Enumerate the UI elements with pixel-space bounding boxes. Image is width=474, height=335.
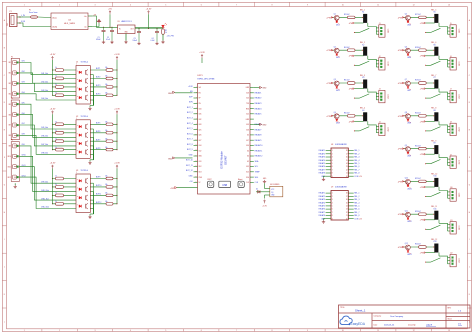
svg-text:9: 9 xyxy=(332,218,333,220)
svg-text:+PW: +PW xyxy=(420,220,424,222)
J8 pin stub 3 xyxy=(448,132,451,134)
resistor R23 relay xyxy=(419,213,427,216)
LED12 xyxy=(407,251,409,253)
svg-text:5V: 5V xyxy=(199,182,201,184)
ground R1 xyxy=(162,41,164,42)
svg-text:8: 8 xyxy=(272,5,273,7)
J1 pin stub 3 xyxy=(376,33,379,35)
wire output BUT12 xyxy=(90,203,117,205)
wire emitter U3 ch1 xyxy=(90,182,93,184)
LED3 xyxy=(336,87,338,89)
wire input CH12 xyxy=(19,177,76,208)
relay K8 common lead xyxy=(426,130,431,132)
relay K3 switch arm xyxy=(359,94,369,98)
relay K2 common lead xyxy=(354,64,359,66)
svg-text:LED6: LED6 xyxy=(407,57,411,59)
svg-text:SD0: SD0 xyxy=(255,177,259,179)
svg-text:CON3: CON3 xyxy=(386,127,388,131)
wire L_IN xyxy=(20,16,30,18)
svg-text:G19: G19 xyxy=(246,124,249,126)
svg-text:J3: J3 xyxy=(379,89,381,91)
svg-text:1k: 1k xyxy=(55,201,57,203)
resistor R1 xyxy=(162,29,165,35)
wire emitter U1 ch1 xyxy=(90,74,93,76)
svg-text:+PW: +PW xyxy=(397,214,402,216)
relay K1 coil pin stub xyxy=(367,23,369,27)
svg-text:RELAY1: RELAY1 xyxy=(319,149,325,152)
J8 pin 2 xyxy=(452,129,454,131)
resistor R22 relay xyxy=(419,180,427,183)
svg-text:REL_8: REL_8 xyxy=(354,173,359,175)
svg-text:CH1: CH1 xyxy=(22,61,25,63)
J11 pin stub 2 xyxy=(448,227,451,229)
capacitor C4 xyxy=(156,28,157,29)
resistor R11 anode xyxy=(52,195,53,196)
svg-text:+PW: +PW xyxy=(397,50,402,52)
opto LED U3 ch3 xyxy=(79,196,81,199)
svg-text:BUT3: BUT3 xyxy=(96,85,100,87)
svg-text:CON3: CON3 xyxy=(458,94,460,98)
svg-text:BUT_8: BUT_8 xyxy=(187,144,193,146)
svg-text:K1: K1 xyxy=(362,12,364,14)
svg-text:G34: G34 xyxy=(199,108,202,110)
svg-text:CON3: CON3 xyxy=(386,62,388,66)
svg-text:G12: G12 xyxy=(199,150,202,152)
ground C3 xyxy=(138,42,140,43)
J1 pin 3 xyxy=(380,33,382,35)
svg-text:SCL: SCL xyxy=(255,166,259,168)
svg-text:LED2: LED2 xyxy=(336,57,340,59)
svg-text:+PW: +PW xyxy=(420,187,424,189)
svg-text:CON3: CON3 xyxy=(458,29,460,33)
diode D2 xyxy=(258,190,261,193)
wire right rail xyxy=(116,169,118,204)
wire K4 to contacts xyxy=(368,125,377,133)
EXP1 right pin 16 G15 xyxy=(250,166,254,168)
power flag +3.3V right rail U1 xyxy=(116,58,118,60)
U8 pin 5 left xyxy=(326,162,331,164)
svg-text:G33: G33 xyxy=(199,124,202,126)
power flag +3.3V left rail U1 xyxy=(52,58,54,60)
svg-text:EasyEDA: EasyEDA xyxy=(351,322,366,326)
svg-text:TEMP: TEMP xyxy=(255,172,261,174)
svg-text:G27: G27 xyxy=(199,140,202,142)
wire output BUT3 xyxy=(90,86,117,88)
opto LED U1 ch1 xyxy=(79,71,81,74)
svg-text:G15: G15 xyxy=(246,166,249,168)
svg-text:+PW: +PW xyxy=(397,17,402,19)
svg-text:10k: 10k xyxy=(105,176,108,178)
J9 pin 2 xyxy=(452,161,454,163)
ground C2 xyxy=(111,41,113,42)
svg-text:CH2_But: CH2_But xyxy=(41,80,48,83)
AC-DC module U4 xyxy=(51,13,88,30)
svg-text:5: 5 xyxy=(165,330,166,332)
svg-text:REL_4: REL_4 xyxy=(354,160,359,162)
svg-text:RELAY7: RELAY7 xyxy=(319,211,325,214)
resistor R17 relay xyxy=(419,16,427,19)
svg-text:5: 5 xyxy=(165,5,166,7)
svg-text:RELAY5: RELAY5 xyxy=(255,113,262,116)
ground C1 xyxy=(103,41,105,42)
transistor Q3 xyxy=(334,81,339,86)
J5 pin 2 xyxy=(452,30,454,32)
svg-text:REV:: REV: xyxy=(448,308,452,310)
svg-text:10k: 10k xyxy=(105,130,108,132)
svg-text:Boot: Boot xyxy=(238,178,243,181)
svg-text:+3.3V: +3.3V xyxy=(50,54,56,56)
optocoupler U3 xyxy=(76,174,90,213)
connector J2 xyxy=(379,58,385,70)
resistor R18 relay xyxy=(419,49,427,52)
J1 pin 1 xyxy=(380,27,382,29)
svg-text:Q12: Q12 xyxy=(405,243,408,245)
wire K9 to contacts xyxy=(439,158,448,166)
EXP1 right pin 15 G2 xyxy=(250,160,254,162)
EXP1 right pin 12 G16 xyxy=(250,145,254,147)
svg-text:Q10: Q10 xyxy=(405,178,408,180)
svg-text:J: J xyxy=(4,267,5,269)
svg-text:SD3: SD3 xyxy=(199,172,202,174)
connector J8 xyxy=(450,123,456,135)
resistor R20 relay xyxy=(419,115,427,118)
wire +PW to coil K4 xyxy=(333,115,363,117)
EXP1 right pin 11 G17 xyxy=(250,139,254,141)
opto LED U2 ch3 xyxy=(79,142,81,145)
svg-text:Q1: Q1 xyxy=(334,14,336,16)
J6 pin stub 2 xyxy=(448,63,451,65)
svg-text:G26: G26 xyxy=(199,135,202,137)
opto transistor U3 ch1 xyxy=(85,179,87,184)
svg-text:GND: GND xyxy=(168,158,173,160)
optocoupler U1 xyxy=(76,66,90,105)
transistor Q5 xyxy=(406,15,411,20)
svg-text:G2: G2 xyxy=(247,161,249,163)
svg-text:R17 4k7: R17 4k7 xyxy=(415,14,421,16)
svg-text:BUT1: BUT1 xyxy=(96,68,100,70)
opto transistor U2 ch1 xyxy=(85,124,87,129)
wire input CH2 xyxy=(19,73,76,83)
power flag +3.3V above EXP1 xyxy=(201,56,203,58)
svg-text:CH6: CH6 xyxy=(22,113,25,115)
resistor R21 relay xyxy=(419,147,427,150)
J12 pin stub 3 xyxy=(448,263,451,265)
relay K12 coil pin stub xyxy=(438,253,440,257)
svg-text:LED10: LED10 xyxy=(407,188,412,190)
wire -Vo to ground xyxy=(92,23,99,27)
EXP1 right pin 5 RXD xyxy=(250,108,254,110)
svg-text:CON3: CON3 xyxy=(458,258,460,262)
svg-text:K12: K12 xyxy=(434,241,437,243)
J4 pin 3 xyxy=(380,132,382,134)
svg-text:LED8: LED8 xyxy=(407,123,411,125)
power flag +3.3V right rail U2 xyxy=(116,112,118,114)
svg-text:EXP1: EXP1 xyxy=(198,75,204,77)
svg-text:+Vo: +Vo xyxy=(84,16,87,18)
svg-text:10k: 10k xyxy=(105,121,108,123)
svg-text:GND: GND xyxy=(168,93,173,95)
svg-text:BUT_2: BUT_2 xyxy=(187,112,193,114)
EXP1 right pin 10 G5 xyxy=(250,134,254,136)
optocoupler U2 xyxy=(76,120,90,159)
resistor R1 anode xyxy=(52,69,53,70)
resistor pullup U2 ch4 xyxy=(106,148,113,151)
U9 pin 4 left xyxy=(326,202,331,204)
EXP1 right pin 18 SD0 xyxy=(250,176,254,178)
svg-text:R19 4k7: R19 4k7 xyxy=(415,80,421,82)
svg-text:P4: P4 xyxy=(11,140,13,142)
svg-text:17: 17 xyxy=(346,153,348,155)
wire U5 out rail xyxy=(135,28,163,30)
svg-text:OUT: OUT xyxy=(130,29,133,31)
U5 ground pin xyxy=(125,34,127,41)
ground U9 xyxy=(324,219,326,221)
driver IC U9 ULN2803 xyxy=(331,191,348,221)
svg-text:BUT7: BUT7 xyxy=(96,139,100,141)
svg-text:REL_5: REL_5 xyxy=(354,163,359,165)
svg-text:R23 4k7: R23 4k7 xyxy=(415,211,421,213)
svg-text:7: 7 xyxy=(236,5,237,7)
relay K2 switch arm xyxy=(359,61,369,65)
J5 pin 1 xyxy=(452,27,454,29)
connector J7 xyxy=(450,90,456,102)
J4 pin stub 2 xyxy=(376,129,379,131)
frame row ticks left/right xyxy=(2,33,6,35)
relay K6 switch arm xyxy=(431,61,441,65)
opto transistor U1 ch3 xyxy=(85,87,87,92)
EXP1 left pin 5 G34 xyxy=(194,108,198,110)
wire +3.3V to rail xyxy=(148,14,150,28)
svg-text:VP: VP xyxy=(199,98,201,100)
svg-text:13: 13 xyxy=(346,209,348,211)
svg-text:J6: J6 xyxy=(450,56,452,58)
resistor R15 relay xyxy=(347,82,355,85)
svg-text:2: 2 xyxy=(59,330,60,332)
svg-text:BUT_7: BUT_7 xyxy=(187,139,193,141)
EXP1 left pin 18 CMD xyxy=(194,176,198,178)
wire +PW to coil K5 xyxy=(404,16,434,18)
svg-text:1k: 1k xyxy=(55,147,57,149)
svg-text:CN2: CN2 xyxy=(7,23,9,26)
J11 pin 2 xyxy=(452,227,454,229)
opto transistor U1 ch2 xyxy=(85,79,87,84)
resistor R16 relay xyxy=(347,115,355,118)
transistor Q6 xyxy=(406,48,411,53)
J2 pin 2 xyxy=(380,63,382,65)
svg-text:J4: J4 xyxy=(379,122,381,124)
EXP1 left pin 12 G14 xyxy=(194,145,198,147)
svg-text:IN2: IN2 xyxy=(8,73,11,75)
relay K7 coil pin stub xyxy=(438,89,440,93)
EXP1 left pin 2 EN xyxy=(194,92,198,94)
svg-text:+5V: +5V xyxy=(108,8,112,10)
EXP1 left pin 9 G25 xyxy=(194,129,198,131)
relay K11 coil pin stub xyxy=(438,220,440,224)
svg-text:+PW: +PW xyxy=(348,23,352,25)
EXP1 left pin 7 G32 xyxy=(194,118,198,120)
resistor R3 anode xyxy=(52,86,53,87)
svg-text:+PW: +PW xyxy=(326,17,331,19)
svg-text:1k: 1k xyxy=(55,193,57,195)
J8 pin stub 1 xyxy=(448,125,451,127)
svg-text:6: 6 xyxy=(201,330,202,332)
svg-text:D2: D2 xyxy=(256,188,258,190)
svg-text:LED5: LED5 xyxy=(407,24,411,26)
resistor pullup U2 ch2 xyxy=(106,131,113,134)
svg-text:C3: C3 xyxy=(134,38,136,40)
relay K5 coil pin stub xyxy=(438,23,440,27)
U8 pin 9 left xyxy=(326,175,331,177)
connector J1 xyxy=(379,25,385,37)
svg-text:J8: J8 xyxy=(450,122,452,124)
svg-text:GND: GND xyxy=(262,125,267,127)
svg-text:RELAY3: RELAY3 xyxy=(319,156,325,159)
EXP1 right pin 3 G22 xyxy=(250,97,254,99)
svg-text:HLK_5M05: HLK_5M05 xyxy=(64,23,76,25)
J1 pin stub 1 xyxy=(376,27,379,29)
U8 pin 17 right xyxy=(348,153,353,155)
LED2 xyxy=(336,54,338,56)
EXP1 right pin 17 SD1 xyxy=(250,171,254,173)
svg-text:1k: 1k xyxy=(55,67,57,69)
svg-text:BUT_9: BUT_9 xyxy=(187,149,193,151)
J3 pin stub 2 xyxy=(376,96,379,98)
transistor Q12 xyxy=(406,245,411,250)
svg-text:Q4: Q4 xyxy=(334,112,336,114)
relay K10 coil xyxy=(434,178,438,187)
svg-text:RELAY3: RELAY3 xyxy=(319,198,325,201)
svg-text:+PW: +PW xyxy=(397,247,402,249)
P2 pin 2 xyxy=(12,71,16,75)
svg-text:13: 13 xyxy=(448,330,450,332)
connector J11 xyxy=(450,222,456,234)
capacitor C3 xyxy=(138,28,139,29)
connector J10 xyxy=(450,189,456,201)
svg-text:U3: U3 xyxy=(76,170,78,172)
relay K5 common lead xyxy=(426,32,431,34)
LED9 xyxy=(407,152,409,154)
relay K1 common lead xyxy=(354,32,359,34)
svg-text:G22: G22 xyxy=(246,98,249,100)
svg-text:J12: J12 xyxy=(450,253,453,255)
EXP1 right pin 2 G23 xyxy=(250,92,254,94)
svg-text:+PW: +PW xyxy=(397,181,402,183)
svg-text:1k: 1k xyxy=(55,176,57,178)
J8 pin 1 xyxy=(452,125,454,127)
P4 pin 3 xyxy=(12,165,16,169)
U8 pin 1 left xyxy=(326,150,331,152)
svg-text:SD1: SD1 xyxy=(246,172,249,174)
ground U3 xyxy=(90,213,94,215)
LED4 xyxy=(336,119,338,121)
svg-text:G4: G4 xyxy=(247,150,249,152)
svg-text:+PW: +PW xyxy=(397,149,402,151)
LED11 xyxy=(407,218,409,220)
svg-text:10k: 10k xyxy=(105,84,108,86)
resistor pullup U1 ch4 xyxy=(106,94,113,97)
svg-text:BUT_6: BUT_6 xyxy=(187,133,193,135)
relay K5 coil xyxy=(434,14,438,23)
svg-text:LED7: LED7 xyxy=(407,90,411,92)
wire input CH11 xyxy=(19,167,76,200)
svg-text:+PW: +PW xyxy=(326,116,331,118)
P4 pin 2 xyxy=(12,154,16,158)
J2 pin stub 3 xyxy=(376,66,379,68)
connector P4 xyxy=(11,142,19,182)
wire emitter U2 ch3 xyxy=(90,145,93,147)
J1 pin 2 xyxy=(380,30,382,32)
svg-text:U9: U9 xyxy=(331,186,333,188)
J7 pin stub 2 xyxy=(448,96,451,98)
wire input CH9 xyxy=(19,146,76,183)
J10 pin stub 1 xyxy=(448,191,451,193)
wire input CH4 xyxy=(19,94,76,100)
svg-text:VN: VN xyxy=(199,103,201,105)
resistor R9 anode xyxy=(52,178,53,179)
J6 pin stub 3 xyxy=(448,66,451,68)
LED7 xyxy=(407,87,409,89)
svg-text:G32: G32 xyxy=(199,119,202,121)
svg-text:10k: 10k xyxy=(105,184,108,186)
svg-text:J7: J7 xyxy=(450,89,452,91)
svg-text:9: 9 xyxy=(307,330,308,332)
svg-text:REL_8: REL_8 xyxy=(354,215,359,217)
svg-text:G25: G25 xyxy=(199,129,202,131)
svg-text:R24 4k7: R24 4k7 xyxy=(415,244,421,246)
wire +PW to coil K8 xyxy=(404,115,434,117)
svg-text:CH3: CH3 xyxy=(22,82,25,84)
svg-text:CON3: CON3 xyxy=(458,193,460,197)
svg-text:RELAY4: RELAY4 xyxy=(319,159,325,162)
svg-text:RELAY9: RELAY9 xyxy=(255,139,262,142)
svg-text:6: 6 xyxy=(201,5,202,7)
svg-text:J2: J2 xyxy=(379,56,381,58)
EXP1 left pin 11 G27 xyxy=(194,139,198,141)
svg-text:4: 4 xyxy=(130,330,131,332)
LED6 xyxy=(407,54,409,56)
wire K5 to contacts xyxy=(439,27,448,35)
svg-text:CON3: CON3 xyxy=(458,62,460,66)
svg-text:2: 2 xyxy=(332,153,333,155)
svg-text:BUT5: BUT5 xyxy=(96,122,100,124)
svg-text:RELAY6: RELAY6 xyxy=(319,208,325,211)
svg-text:10k: 10k xyxy=(105,193,108,195)
svg-text:CH8: CH8 xyxy=(22,134,25,136)
wire output BUT7 xyxy=(90,140,117,142)
svg-text:+3.3V: +3.3V xyxy=(199,52,205,54)
power flag +3.3V xyxy=(148,12,150,14)
transistor Q11 xyxy=(406,212,411,217)
wire emitter U1 ch3 xyxy=(90,91,93,93)
J4 pin stub 1 xyxy=(376,125,379,127)
svg-text:G35: G35 xyxy=(199,114,202,116)
U8 pin 3 left xyxy=(326,156,331,158)
wire output BUT5 xyxy=(90,123,117,125)
svg-text:Fuse 5mm: Fuse 5mm xyxy=(29,12,38,14)
svg-text:REL_1: REL_1 xyxy=(354,193,359,195)
svg-text:3: 3 xyxy=(332,157,333,159)
svg-text:CH11_But: CH11_But xyxy=(41,197,49,200)
svg-text:U1: U1 xyxy=(76,62,78,64)
wire left rail xyxy=(52,169,54,204)
svg-text:+3.3V: +3.3V xyxy=(146,8,152,10)
svg-text:CH9_But: CH9_But xyxy=(41,180,48,183)
svg-text:1k: 1k xyxy=(55,138,57,140)
svg-text:10: 10 xyxy=(346,176,348,178)
opto LED U2 ch4 xyxy=(79,151,81,154)
resistor pullup U3 ch2 xyxy=(106,186,113,189)
svg-text:1k: 1k xyxy=(165,32,167,34)
